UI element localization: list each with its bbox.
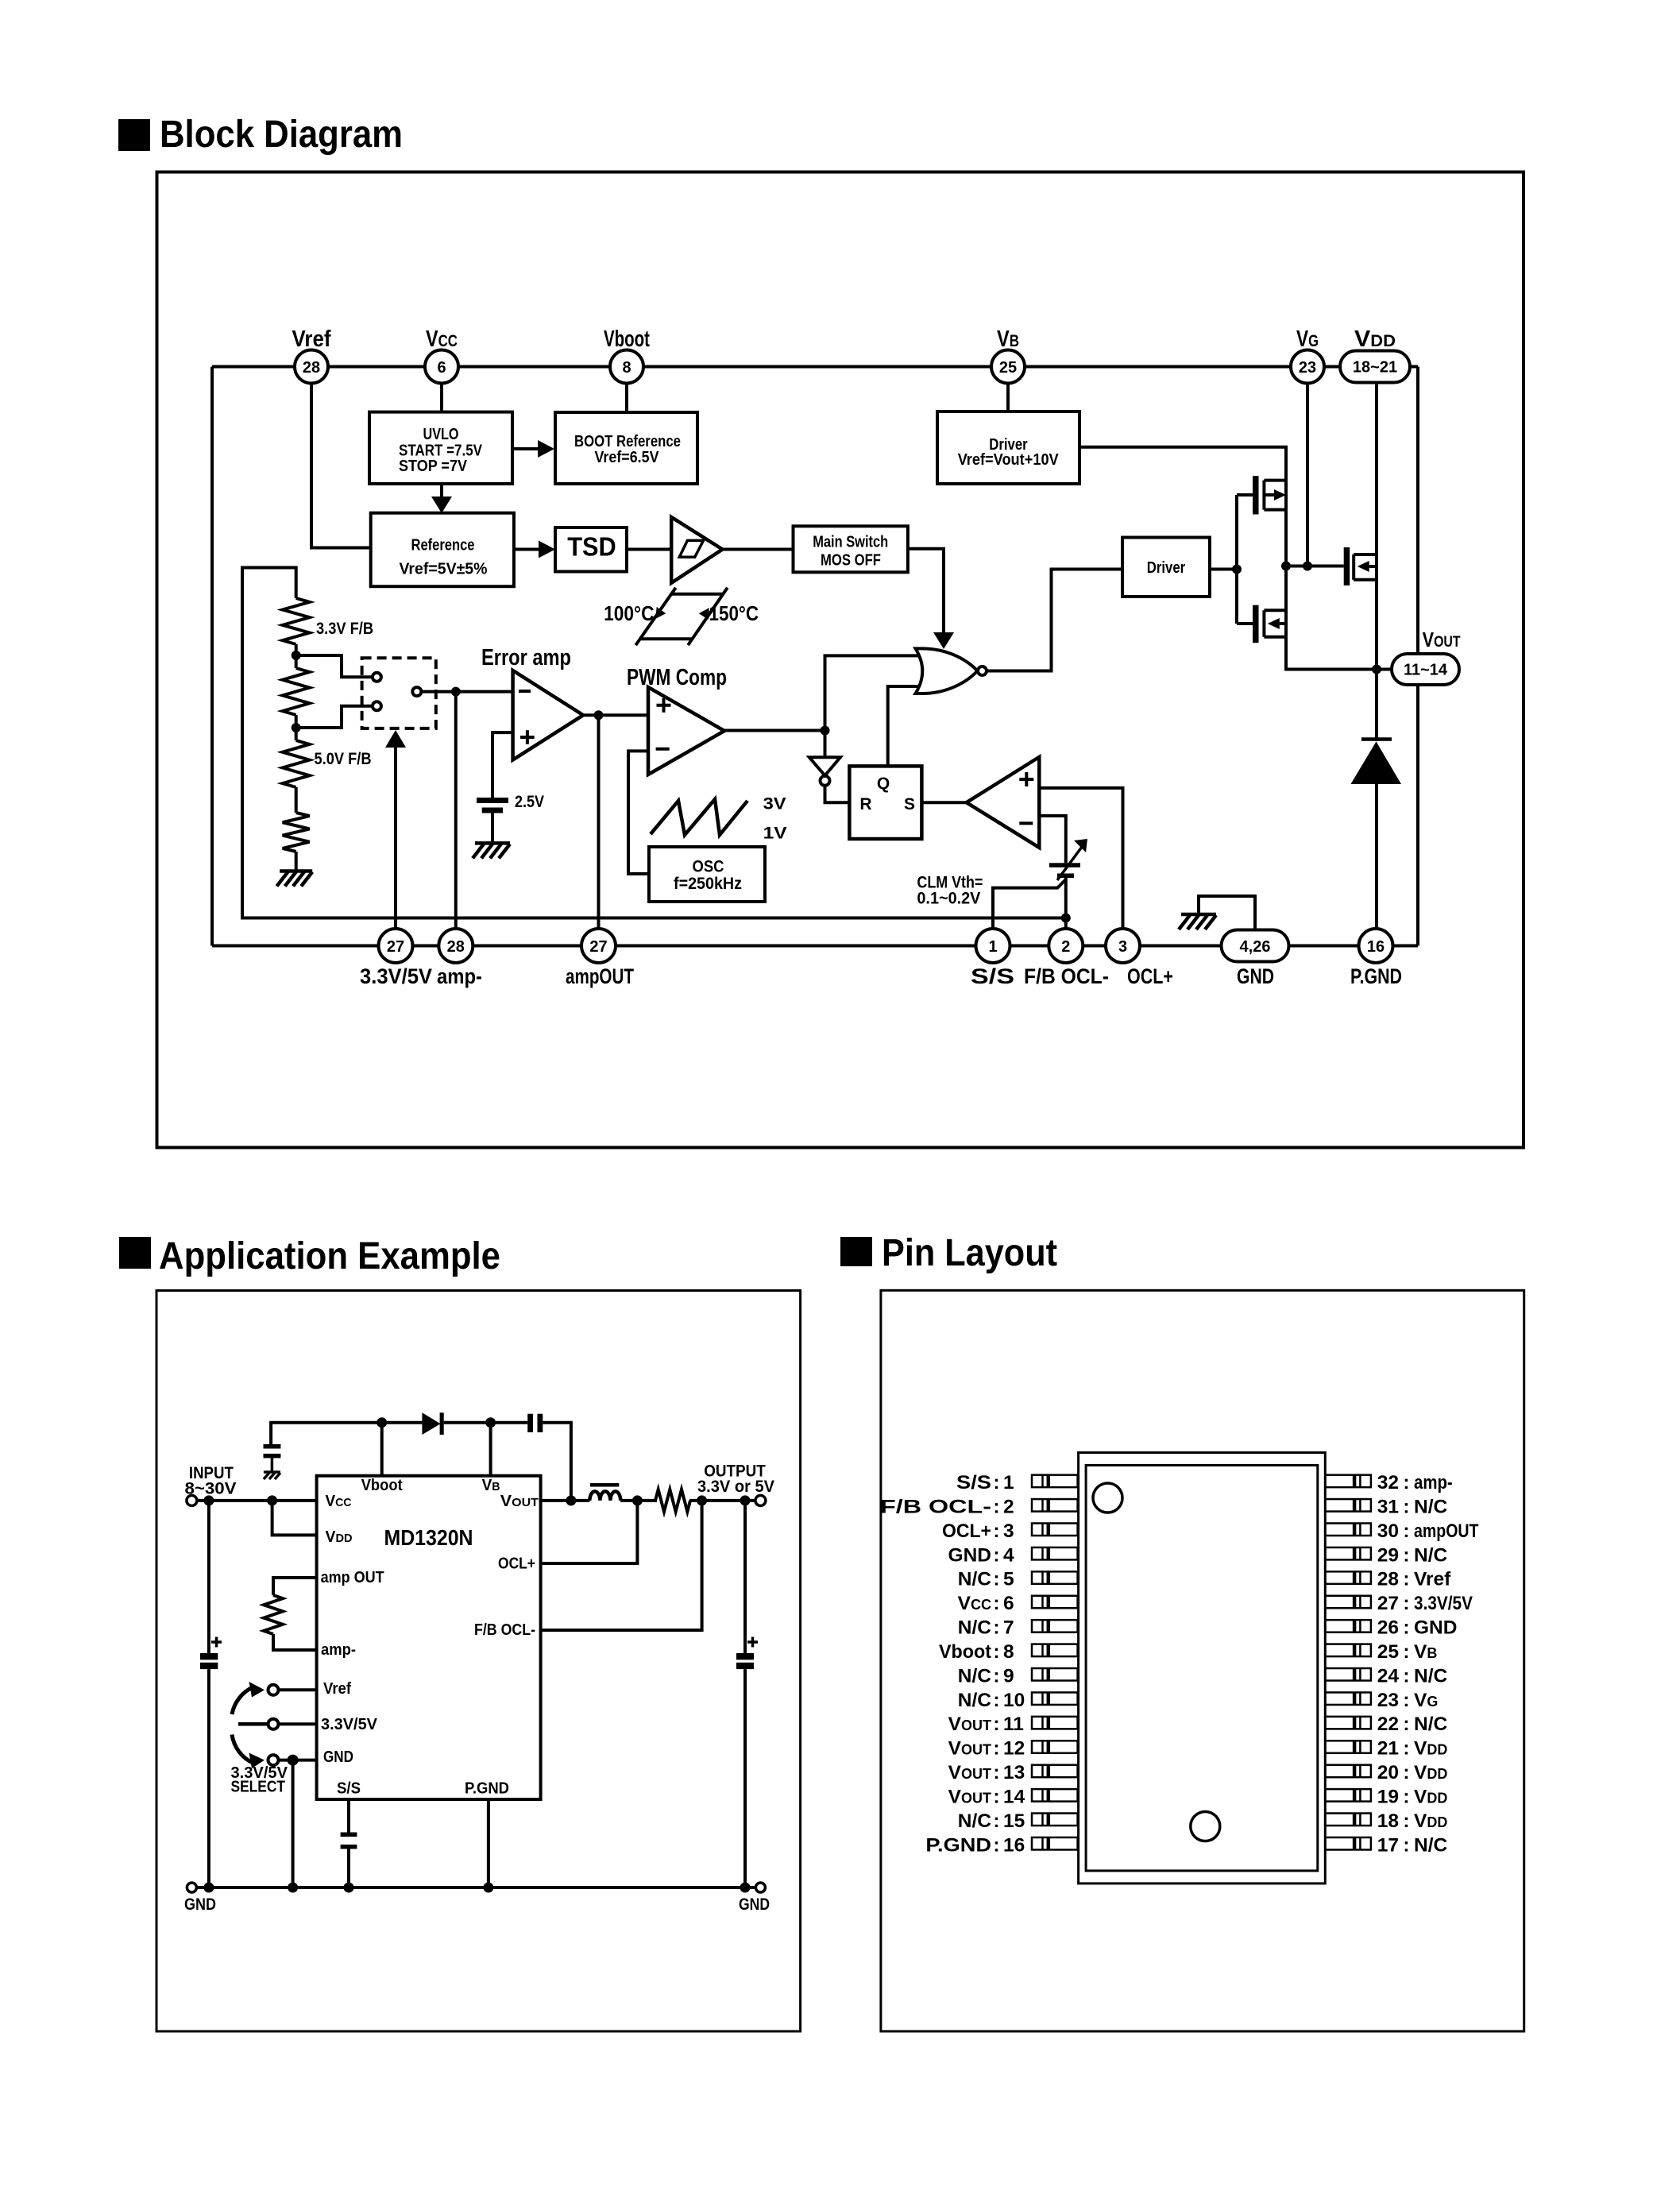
svg-text:14: 14 <box>1003 1786 1025 1807</box>
svg-text:PWM Comp: PWM Comp <box>627 665 727 690</box>
pin label 25 : VB <box>1377 1641 1438 1663</box>
block TSD <box>555 527 627 572</box>
pin 9 lead <box>1032 1668 1078 1681</box>
node divider tap 3.3V <box>292 651 301 660</box>
svg-text:GND: GND <box>184 1895 216 1914</box>
svg-text:20: 20 <box>1377 1762 1399 1783</box>
resistor R3 5.0V tap <box>283 740 372 787</box>
svg-text:8: 8 <box>622 359 631 377</box>
node P.GND at bus <box>483 1883 493 1893</box>
pin label P.GND : 16 <box>925 1834 1025 1856</box>
pin 27 ampOUT <box>566 929 634 988</box>
svg-text:OCL+: OCL+ <box>498 1555 535 1573</box>
svg-text:F/B OCL-: F/B OCL- <box>474 1621 535 1639</box>
svg-text:GND: GND <box>1414 1617 1457 1639</box>
svg-text:SELECT: SELECT <box>231 1779 286 1796</box>
svg-text::: : <box>993 1786 999 1807</box>
wire GND select to bus <box>292 1760 295 1888</box>
svg-text:F/B OCL-: F/B OCL- <box>1024 964 1109 988</box>
pin VG 23 <box>1291 327 1324 384</box>
wire diode to VB node <box>444 1421 491 1424</box>
pin 19 lead <box>1325 1789 1371 1802</box>
pin 20 lead <box>1325 1765 1371 1778</box>
svg-text::: : <box>993 1496 999 1517</box>
block Main Switch MOS OFF <box>794 526 908 572</box>
transistor M2 (low side) <box>1237 566 1286 643</box>
node PWM output <box>821 726 830 736</box>
switch contact 3.3V <box>373 673 381 682</box>
pin 3 OCL+ <box>1106 929 1173 988</box>
block Reference Vref=5V±5% <box>371 513 514 587</box>
pin 6 lead <box>1032 1596 1078 1609</box>
pin 8 lead <box>1032 1644 1078 1657</box>
arrow 3.3V/5V select into switch <box>385 730 406 929</box>
pin 24 lead <box>1325 1668 1371 1681</box>
pin label N/C : 5 <box>958 1569 1014 1590</box>
svg-text::: : <box>993 1520 999 1542</box>
pin label GND : 4 <box>948 1544 1014 1566</box>
wire GND pin to ground <box>1199 896 1255 929</box>
ground (GND pin) <box>1179 914 1216 929</box>
chip pin label OCL+ <box>498 1555 535 1573</box>
wire Vcc bypass capacitor branch <box>271 1423 382 1444</box>
chip pin label S/S <box>337 1780 361 1798</box>
pin 28 lead <box>1325 1571 1371 1584</box>
svg-text:8: 8 <box>1003 1641 1014 1663</box>
svg-text::: : <box>993 1641 999 1663</box>
wire <box>295 852 298 871</box>
svg-text:UVLO: UVLO <box>423 426 459 443</box>
pin label VOUT : 12 <box>948 1738 1025 1760</box>
switch contact 5.0V <box>373 701 381 710</box>
svg-text::: : <box>993 1714 999 1735</box>
svg-text::: : <box>1403 1714 1409 1735</box>
terminal 3.3V/5V select <box>238 1719 317 1729</box>
pin 16 lead <box>1032 1837 1078 1850</box>
terminal Vref select <box>268 1685 317 1695</box>
wire input cap branch <box>207 1501 210 1653</box>
frame: pin layout border <box>881 1290 1524 2031</box>
pin 5 lead <box>1032 1571 1078 1584</box>
pin label 29 : N/C <box>1377 1544 1448 1566</box>
wire VOUT to inductor <box>541 1499 590 1502</box>
svg-text:3.3V/5V: 3.3V/5V <box>1414 1593 1473 1614</box>
wire VDD pin down to output MOSFET drain <box>1375 382 1378 554</box>
node VOUT <box>1372 665 1381 674</box>
svg-text:S: S <box>904 795 915 813</box>
capacitor (soft start) <box>341 1833 357 1849</box>
svg-text:VDD: VDD <box>1414 1762 1447 1783</box>
svg-text:N/C: N/C <box>958 1810 992 1832</box>
svg-text:32: 32 <box>1377 1472 1399 1493</box>
GND terminal right <box>739 1883 770 1914</box>
svg-text:Vref: Vref <box>323 1680 351 1698</box>
pin 27 lead <box>1325 1596 1371 1609</box>
chip pin label 3.3V/5V <box>321 1716 378 1733</box>
block OSC f=250kHz <box>649 847 765 902</box>
svg-text:VB: VB <box>482 1477 500 1494</box>
node VDD branch <box>267 1495 277 1505</box>
oscillator sawtooth waveform <box>651 795 787 843</box>
input terminal <box>185 1463 238 1505</box>
svg-text:21: 21 <box>1377 1738 1399 1760</box>
svg-text::: : <box>1403 1641 1409 1663</box>
svg-text:VDD: VDD <box>1414 1786 1447 1807</box>
svg-text:N/C: N/C <box>958 1690 992 1711</box>
svg-text:11: 11 <box>1003 1714 1024 1735</box>
svg-text:1V: 1V <box>763 825 787 843</box>
wire F/B feedback line to resistor divider <box>242 568 1066 918</box>
svg-text:3.3V/5V: 3.3V/5V <box>321 1716 378 1733</box>
capacitor (input electrolytic) <box>200 1637 222 1670</box>
wire amp OUT to resistor <box>273 1578 317 1595</box>
thermal hysteresis curve 100°C 150°C <box>604 588 759 645</box>
wire error amp + input to 2.5V reference <box>492 732 513 798</box>
pin 27 3.3V/5V <box>360 929 432 988</box>
pin 30 lead <box>1325 1523 1371 1536</box>
svg-text::: : <box>1403 1569 1409 1590</box>
svg-text:GND: GND <box>323 1748 353 1766</box>
svg-text:Vboot: Vboot <box>604 327 650 352</box>
pin label 31 : N/C <box>1377 1496 1448 1517</box>
svg-text:3: 3 <box>1003 1520 1014 1542</box>
svg-text:N/C: N/C <box>958 1569 992 1590</box>
wire <box>295 644 298 668</box>
svg-text:Pin Layout: Pin Layout <box>882 1232 1057 1274</box>
arrow select to GND <box>232 1735 265 1769</box>
svg-text:VDD: VDD <box>1414 1738 1447 1760</box>
pin 12 lead <box>1032 1741 1078 1753</box>
node totem midpoint <box>1281 562 1291 571</box>
svg-text:S/S: S/S <box>971 964 1014 988</box>
svg-text:VDD: VDD <box>326 1528 353 1546</box>
wire F/B sense down <box>541 1501 702 1630</box>
chip pin label F/B OCL- <box>474 1621 535 1639</box>
svg-text::: : <box>1403 1593 1409 1614</box>
wire NOR output to Driver <box>987 570 1122 671</box>
resistor (current sense) <box>655 1490 690 1512</box>
node bootstrap/VOUT <box>566 1495 576 1505</box>
wire Vboot pin to BOOT Reference <box>625 383 628 412</box>
wire P.GND to bus <box>487 1799 490 1888</box>
transistor M1 (high side) <box>1237 476 1286 515</box>
pin label 26 : GND <box>1377 1617 1458 1639</box>
svg-text:16: 16 <box>1367 938 1385 956</box>
IC package outline (block diagram) <box>212 367 1418 946</box>
inverter <box>809 731 840 786</box>
node F/B sense <box>697 1495 707 1505</box>
wire latch Q to NOR input <box>888 686 923 766</box>
svg-text:N/C: N/C <box>1414 1714 1448 1735</box>
op-amp Error amp <box>481 645 583 760</box>
svg-text:amp-: amp- <box>321 1641 356 1659</box>
svg-text:23: 23 <box>1377 1690 1399 1711</box>
svg-text:24: 24 <box>1377 1665 1400 1687</box>
svg-text::: : <box>993 1665 999 1687</box>
wire ampOUT junction down to pin 27 <box>597 715 601 929</box>
svg-text:3.3V/5V: 3.3V/5V <box>360 964 432 988</box>
wire gate node to M1/M2 gates <box>1235 495 1238 624</box>
wire tap 3.3V to switch contact <box>296 655 372 677</box>
block UVLO START=7.5V STOP=7V <box>369 412 512 484</box>
pin label OCL+ : 3 <box>942 1520 1014 1542</box>
pin label VOUT : 14 <box>948 1786 1025 1807</box>
node GND select at bus <box>288 1883 298 1893</box>
wire error amp output to PWM comparator <box>583 713 648 717</box>
index mark circle (pin 1) <box>1093 1483 1122 1513</box>
svg-text:1: 1 <box>988 938 997 956</box>
svg-text:N/C: N/C <box>1414 1544 1448 1566</box>
node divider tap 5.0V <box>292 723 301 732</box>
svg-text:22: 22 <box>1377 1714 1399 1735</box>
op-amp PWM Comp <box>627 665 727 775</box>
pin 23 lead <box>1325 1692 1371 1705</box>
svg-text:23: 23 <box>1299 359 1316 377</box>
svg-text::: : <box>1403 1690 1409 1711</box>
wire M1 source to midpoint node <box>1284 510 1288 566</box>
wire bootstrap cap to VOUT <box>543 1423 571 1501</box>
pin label 19 : VDD <box>1377 1786 1448 1807</box>
pin 2 lead <box>1032 1499 1078 1512</box>
svg-text:MOS OFF: MOS OFF <box>821 552 881 570</box>
wire resistor to output <box>689 1499 755 1502</box>
svg-text:26: 26 <box>1377 1617 1399 1639</box>
svg-text::: : <box>993 1762 999 1783</box>
pin 11 lead <box>1032 1717 1078 1729</box>
pin Vboot 8 <box>604 327 650 384</box>
pin label 30 : ampOUT <box>1377 1520 1479 1542</box>
svg-text::: : <box>1403 1472 1409 1493</box>
svg-text:S/S: S/S <box>956 1472 991 1493</box>
wire inductor to resistor <box>620 1499 657 1502</box>
svg-text:TSD: TSD <box>567 532 616 562</box>
svg-text:VG: VG <box>1414 1690 1438 1711</box>
chip pin label amp OUT <box>321 1569 384 1586</box>
svg-text:19: 19 <box>1377 1786 1399 1807</box>
svg-text:28: 28 <box>447 938 465 956</box>
block Driver Vref=Vout+10V <box>937 412 1079 484</box>
node VB <box>485 1417 496 1428</box>
svg-text:VOUT: VOUT <box>948 1762 991 1783</box>
svg-text:11~14: 11~14 <box>1404 662 1448 679</box>
svg-text:4: 4 <box>1003 1544 1014 1566</box>
arrow UVLO to BOOT Reference <box>512 440 554 458</box>
wire output cap to GND bus <box>743 1669 747 1888</box>
pin 7 lead <box>1032 1620 1078 1632</box>
chip pin label VB <box>482 1477 500 1494</box>
chip pin label GND <box>323 1748 353 1766</box>
diode (freewheel) <box>1351 670 1402 929</box>
wire PWM output up to NOR input <box>825 655 924 730</box>
wire resistor to amp- <box>273 1634 317 1650</box>
svg-text:Main Switch: Main Switch <box>813 534 888 551</box>
svg-text:13: 13 <box>1003 1762 1025 1783</box>
svg-text:3V: 3V <box>763 795 786 813</box>
pin label 18 : VDD <box>1377 1810 1448 1832</box>
wire OCL+ sense down <box>541 1501 638 1563</box>
pin label 23 : VG <box>1377 1690 1439 1711</box>
pin label 32 : amp- <box>1377 1472 1453 1493</box>
pin 26 lead <box>1325 1620 1371 1632</box>
pin label 17 : N/C <box>1377 1834 1448 1856</box>
svg-text:15: 15 <box>1003 1810 1025 1832</box>
pin VOUT 11~14 <box>1392 628 1461 685</box>
chip pin label P.GND <box>465 1780 509 1798</box>
svg-text:R: R <box>859 795 871 813</box>
wire Vref pin to Reference box <box>311 383 371 548</box>
svg-text:Vboot: Vboot <box>939 1641 991 1663</box>
pin 29 lead <box>1325 1548 1371 1560</box>
pin label VOUT : 11 <box>948 1714 1024 1735</box>
GND terminal left <box>184 1883 216 1914</box>
svg-text:P.GND: P.GND <box>925 1834 991 1856</box>
svg-text:27: 27 <box>589 938 607 956</box>
pin 31 lead <box>1325 1499 1371 1512</box>
pin Vref 28 <box>292 327 331 384</box>
diode (bootstrap) <box>422 1412 443 1435</box>
wire VB pin to Driver <box>1006 383 1010 412</box>
svg-text:Vref=6.5V: Vref=6.5V <box>595 449 660 466</box>
chip pin label amp- <box>321 1641 356 1659</box>
svg-text::: : <box>1403 1496 1409 1517</box>
svg-text:16: 16 <box>1003 1834 1025 1856</box>
ground (resistor divider) <box>276 871 312 887</box>
svg-text:N/C: N/C <box>1414 1665 1448 1687</box>
wire input cap to GND bus <box>207 1669 210 1888</box>
pin 21 lead <box>1325 1741 1371 1753</box>
wire top rail to diode <box>382 1421 423 1424</box>
svg-text:5: 5 <box>1003 1569 1014 1590</box>
node gate drive <box>1232 565 1242 574</box>
svg-text::: : <box>993 1544 999 1566</box>
svg-text:Error amp: Error amp <box>481 645 571 670</box>
chip pin label VDD <box>326 1528 353 1546</box>
pin label 24 : N/C <box>1377 1665 1448 1687</box>
svg-text:OCL+: OCL+ <box>1127 964 1173 988</box>
wire latch S from current comparator <box>921 801 966 804</box>
ground (2.5V reference) <box>473 843 510 858</box>
svg-text:OSC: OSC <box>693 858 724 876</box>
node output cap at bus <box>740 1883 751 1893</box>
latch R/S flip-flop <box>849 766 921 839</box>
inductor L1 <box>589 1485 620 1501</box>
svg-text:VOUT: VOUT <box>948 1786 991 1807</box>
pin label Vcc : 6 <box>958 1593 1014 1614</box>
svg-text::: : <box>993 1810 999 1832</box>
pin Vcc 6 <box>425 327 458 384</box>
pin label N/C : 7 <box>958 1617 1014 1639</box>
svg-text:17: 17 <box>1377 1834 1399 1856</box>
wire soft start cap to bus <box>347 1849 350 1888</box>
svg-text:N/C: N/C <box>958 1665 992 1687</box>
svg-text:2.5V: 2.5V <box>515 793 544 811</box>
svg-text::: : <box>993 1617 999 1639</box>
svg-text:F/B OCL-: F/B OCL- <box>880 1496 991 1517</box>
svg-text:12: 12 <box>1003 1738 1025 1760</box>
resistor R2 <box>283 668 310 715</box>
svg-text:MD1320N: MD1320N <box>384 1525 473 1550</box>
variable source CLM Vth 0.1~0.2V <box>917 839 1087 908</box>
node ampOUT junction <box>594 710 604 720</box>
svg-text:3.3V or 5V: 3.3V or 5V <box>697 1477 775 1496</box>
index mark circle (bottom) <box>1191 1812 1220 1841</box>
svg-text::: : <box>1403 1762 1409 1783</box>
wire M3 source to VOUT node <box>1375 580 1378 670</box>
frame: application example border <box>156 1291 801 2032</box>
wire F/B node to pin 2 <box>1064 918 1068 929</box>
pin 1 S/S <box>971 929 1014 988</box>
svg-text:OCL+: OCL+ <box>942 1520 991 1542</box>
svg-text:VOUT: VOUT <box>948 1738 991 1760</box>
svg-text::: : <box>1403 1665 1409 1687</box>
svg-text:Block Diagram: Block Diagram <box>160 114 403 156</box>
pin 2 F/B <box>1024 929 1109 988</box>
svg-text:Reference: Reference <box>411 537 475 554</box>
svg-text:27: 27 <box>1377 1593 1399 1614</box>
wire VB riser <box>489 1423 492 1476</box>
ground (Vcc bypass) <box>264 1472 280 1479</box>
wire M2 source to VOUT node <box>1286 637 1377 670</box>
pin label Vboot : 8 <box>939 1641 1014 1663</box>
capacitor (Vcc bypass) <box>264 1444 281 1471</box>
svg-text::: : <box>1403 1810 1409 1832</box>
svg-text::: : <box>993 1569 999 1590</box>
wire comparator + input to pin OCL+ <box>1039 788 1122 929</box>
svg-text:amp-: amp- <box>437 964 482 988</box>
wire input to Vcc <box>197 1499 317 1502</box>
svg-text:30: 30 <box>1377 1520 1399 1542</box>
svg-text:GND: GND <box>1237 964 1274 988</box>
section title: Pin Layout <box>840 1232 1057 1274</box>
svg-text:1: 1 <box>1003 1472 1014 1493</box>
terminal GND select <box>268 1755 317 1765</box>
svg-text::: : <box>1403 1738 1409 1760</box>
pin 4 lead <box>1032 1548 1078 1560</box>
wire <box>491 813 494 844</box>
arrow select to Vref <box>232 1682 265 1714</box>
node soft start at bus <box>344 1883 354 1893</box>
pin 1 lead <box>1032 1475 1078 1488</box>
wire amp- junction down to pin 28 <box>454 692 458 929</box>
node output cap <box>740 1495 751 1505</box>
pin GND 4,26 <box>1222 930 1289 989</box>
pin 18 lead <box>1325 1814 1371 1826</box>
svg-text:VB: VB <box>1414 1641 1437 1663</box>
svg-text::: : <box>1403 1786 1409 1807</box>
pin 17 lead <box>1325 1837 1371 1850</box>
wire PWM output node <box>724 729 825 732</box>
wire CLM to F/B node <box>1064 878 1068 918</box>
svg-text:ampOUT: ampOUT <box>566 964 634 988</box>
capacitor (output electrolytic) <box>736 1637 758 1670</box>
chip MD1320N <box>317 1476 541 1799</box>
svg-text:3.3V F/B: 3.3V F/B <box>316 620 373 638</box>
wire VB node to bootstrap capacitor <box>491 1421 528 1424</box>
pin 14 lead <box>1032 1789 1078 1802</box>
svg-text:P.GND: P.GND <box>465 1780 509 1798</box>
wire inverter to latch R input <box>825 786 850 802</box>
svg-text:28: 28 <box>303 359 320 377</box>
svg-text:10: 10 <box>1003 1690 1025 1711</box>
pin 22 lead <box>1325 1717 1371 1729</box>
svg-text:6: 6 <box>437 359 446 377</box>
block Driver (gate driver) <box>1122 538 1210 597</box>
wire Driver output to gate node <box>1210 568 1237 571</box>
svg-text:5.0V F/B: 5.0V F/B <box>315 750 372 768</box>
node GND select <box>288 1755 299 1766</box>
svg-text::: : <box>1403 1520 1409 1542</box>
pin VB 25 <box>991 327 1025 384</box>
